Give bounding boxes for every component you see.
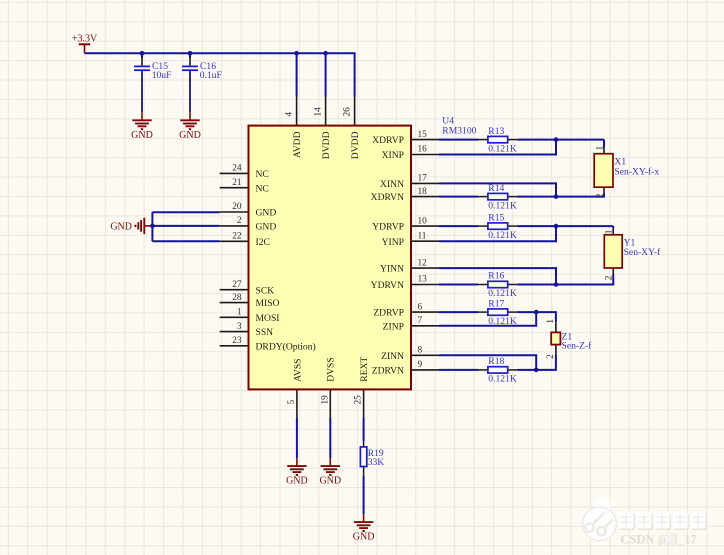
resistor R19 33K bbox=[360, 441, 384, 476]
pin 20 GND (left) bbox=[220, 202, 277, 218]
power symbol +3.3V bbox=[72, 33, 98, 53]
pin 19 DVSS (bottom) bbox=[320, 357, 336, 418]
wire R18 to node Z bottom bbox=[518, 369, 537, 371]
sensor X1 Sen-XY-f-x bbox=[594, 146, 659, 199]
wire ZINN pin8 riser bbox=[439, 355, 536, 370]
wire YINP pin11 riser bbox=[439, 226, 556, 241]
pin 22 I2C (left) bbox=[220, 232, 270, 248]
pin 26 DVDD (top) bbox=[342, 97, 361, 160]
pin 17 XINN (right) bbox=[380, 174, 439, 190]
wire rail to AVDD bbox=[296, 53, 298, 96]
svg-text:CSDN @: CSDN @ bbox=[621, 533, 670, 547]
pin 13 YDRVN (right) bbox=[371, 275, 439, 291]
pin 15 XDRVP (right) bbox=[372, 130, 439, 146]
resistor R14 0.121K bbox=[478, 183, 518, 212]
wire YINN pin12 riser bbox=[439, 268, 556, 284]
wire AVSS to ground bbox=[296, 418, 298, 458]
wire R16 to node Y bottom bbox=[518, 284, 557, 286]
junction on rail at C15 bbox=[140, 51, 145, 56]
pin 7 ZINP (right) bbox=[383, 316, 439, 332]
node X top junction bbox=[554, 137, 559, 142]
op-amp/IC U4 RM3100 body bbox=[249, 126, 412, 390]
wire Y1 pin2 down/left bbox=[556, 275, 613, 285]
pin 27 SCK (left) bbox=[220, 280, 275, 296]
pin 1 MOSI (left) bbox=[220, 308, 280, 324]
node Y bottom junction bbox=[554, 282, 559, 287]
wire rail drop to C15 bbox=[141, 53, 143, 58]
pin 9 ZDRVN (right) bbox=[372, 360, 439, 376]
wire R15 to node Y1.1 bbox=[518, 225, 614, 227]
pin 4 AVDD (top) bbox=[284, 97, 303, 158]
wire R13 to node X1.1 bbox=[518, 139, 605, 141]
wire XINN pin17 riser bbox=[439, 183, 556, 196]
wire ZINP pin7 riser bbox=[439, 312, 536, 326]
wire ZDRVP pin6 to R17 bbox=[439, 311, 478, 313]
junction on rail at AVDD bbox=[294, 51, 299, 56]
pin 23 DRDY(Option) (left) bbox=[220, 336, 316, 352]
wire X1 pin2 down/left bbox=[556, 194, 604, 197]
pin 21 NC (left) bbox=[220, 178, 269, 194]
pin 25 REXT (bottom) bbox=[354, 357, 370, 418]
pin 28 MISO (left) bbox=[220, 293, 280, 309]
pin 8 ZINN (right) bbox=[381, 346, 439, 362]
ground below C16 bbox=[179, 112, 201, 141]
pin 12 YINN (right) bbox=[380, 258, 439, 274]
ground left of U4 (rotated) bbox=[110, 218, 152, 234]
pin 16 XINP (right) bbox=[382, 145, 439, 161]
ground AVSS bbox=[286, 458, 308, 487]
pin 6 ZDRVP (right) bbox=[373, 302, 439, 318]
node Y top junction bbox=[554, 224, 559, 229]
wire GND net to pins 20/2/22 bbox=[151, 212, 153, 241]
wire R14 to node X bottom bbox=[518, 196, 557, 198]
watermark CSDN text bbox=[621, 533, 697, 547]
resistor R17 0.121K bbox=[478, 298, 518, 327]
wire XDRVP pin15 to R13 bbox=[439, 139, 478, 141]
pin 10 YDRVP (right) bbox=[372, 216, 439, 232]
sensor Z1 Sen-Z-f bbox=[546, 319, 592, 359]
wire YDRVP pin10 to R15 bbox=[439, 225, 478, 227]
node Z bottom junction bbox=[534, 368, 539, 373]
wire ZDRVN pin9 to R18 bbox=[439, 369, 478, 371]
pin 3 SSN (left) bbox=[220, 322, 273, 338]
wire R17 to Z1 pin1 bbox=[518, 312, 556, 322]
resistor R15 0.121K bbox=[478, 212, 518, 241]
capacitor C16 0.1uF bbox=[182, 57, 222, 112]
pin 18 XDRVN (right) bbox=[371, 187, 439, 203]
resistor R16 0.121K bbox=[478, 271, 518, 300]
junction on rail at C16 bbox=[188, 51, 193, 56]
ground DVSS bbox=[319, 458, 341, 487]
pin 11 YINP (right) bbox=[382, 231, 439, 247]
pin 5 AVSS (bottom) bbox=[287, 359, 303, 418]
wire rail drop to C16 bbox=[189, 53, 191, 58]
watermark brand text bbox=[619, 512, 707, 530]
wire into Y1 pin1 bbox=[612, 226, 614, 229]
wire YDRVN pin13 to R16 bbox=[439, 284, 478, 286]
svg-text:_17: _17 bbox=[677, 533, 697, 547]
ground below C15 bbox=[131, 112, 153, 141]
capacitor C15 10uF bbox=[134, 57, 171, 112]
ground below R19 bbox=[353, 514, 375, 543]
wire Z1 pin2 down/left bbox=[536, 355, 556, 370]
pin 24 NC (left) bbox=[220, 164, 269, 180]
wire XDRVN pin18 to R14 bbox=[439, 196, 478, 198]
junction GND net bbox=[150, 224, 155, 229]
sensor Y1 Sen-XY-f bbox=[604, 229, 661, 281]
resistor R18 0.121K bbox=[478, 356, 518, 385]
wire REXT to R19 bbox=[363, 418, 365, 441]
junction on rail at DVDD bbox=[323, 51, 328, 56]
resistor R13 0.121K bbox=[478, 126, 518, 155]
wire DVSS to ground bbox=[329, 418, 331, 458]
node Z top junction bbox=[534, 310, 539, 315]
wire +3.3V rail bbox=[85, 53, 355, 96]
wire rail to DVDD pin14 bbox=[325, 53, 327, 96]
wire into X1 pin1 bbox=[603, 140, 605, 148]
pin 14 DVDD (top) bbox=[313, 97, 332, 160]
node X bottom junction bbox=[554, 194, 559, 199]
wire XINP pin16 riser bbox=[439, 140, 556, 155]
pin 2 GND (left) bbox=[220, 216, 277, 232]
wire R19 to ground bbox=[363, 476, 365, 514]
